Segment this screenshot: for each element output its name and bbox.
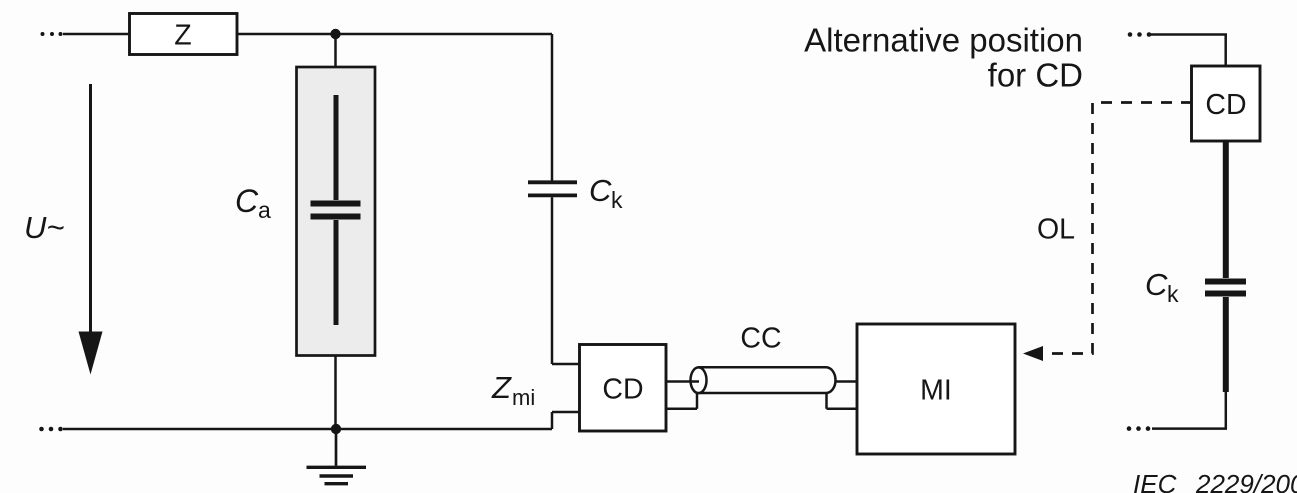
arrowhead into MI [1023,346,1043,361]
svg-text:CD: CD [602,374,643,406]
label Alternative position for CD [804,22,1083,94]
label Ck alternative [1145,267,1179,307]
wire thick lower [1223,297,1229,392]
test object Ca box [297,67,376,356]
node bottom-right dots [1127,426,1151,431]
coupling device CD alternative [1192,66,1261,141]
optical link OL dashed wire [1043,103,1192,354]
svg-text:C: C [589,173,612,208]
ground [307,429,367,484]
impedance Z [130,14,238,55]
node left supply dots [41,32,63,36]
node junction top [330,29,340,39]
svg-text:k: k [611,187,623,213]
label Ca [235,183,271,223]
wire thick upper [1223,141,1229,278]
coupling capacitor Ck [528,34,577,364]
wire [237,33,552,36]
coupling capacitor Ck alternative [1205,282,1246,294]
wire [334,356,337,430]
capacitor inside Ca [311,95,361,325]
svg-text:MI: MI [920,375,952,407]
svg-text:2229/2000: 2229/2000 [1195,469,1297,493]
wire [63,33,130,36]
svg-text:k: k [1167,281,1179,307]
svg-text:U~: U~ [24,210,65,245]
svg-text:for CD: for CD [988,57,1083,94]
connecting cable CC [666,367,857,409]
coupling device CD [580,345,667,432]
svg-text:C: C [1145,267,1168,302]
wire thin lower [1152,392,1227,429]
svg-text:IEC: IEC [1133,469,1177,493]
svg-text:mi: mi [512,385,535,410]
svg-text:Z: Z [491,370,512,405]
svg-text:OL: OL [1037,214,1075,246]
svg-text:Alternative position: Alternative position [804,22,1083,59]
wire [1151,35,1227,67]
node right supply dots [1128,32,1152,37]
wire [334,34,337,67]
voltage arrow U~ [79,84,103,375]
svg-text:CD: CD [1205,89,1246,121]
label Zmi [491,370,535,410]
wire CD lower terminal [552,412,580,429]
wire CD upper terminal [552,363,580,366]
svg-text:a: a [258,197,271,223]
label IEC 2229/2000 [1133,469,1297,493]
node bottom-left dots [39,427,63,432]
node junction bottom [331,424,341,434]
wire bottom bus [63,428,552,431]
measuring instrument MI [857,324,1015,454]
label Ck [589,173,623,213]
svg-text:C: C [235,183,259,219]
svg-text:CC: CC [740,323,781,355]
svg-text:Z: Z [174,20,191,52]
